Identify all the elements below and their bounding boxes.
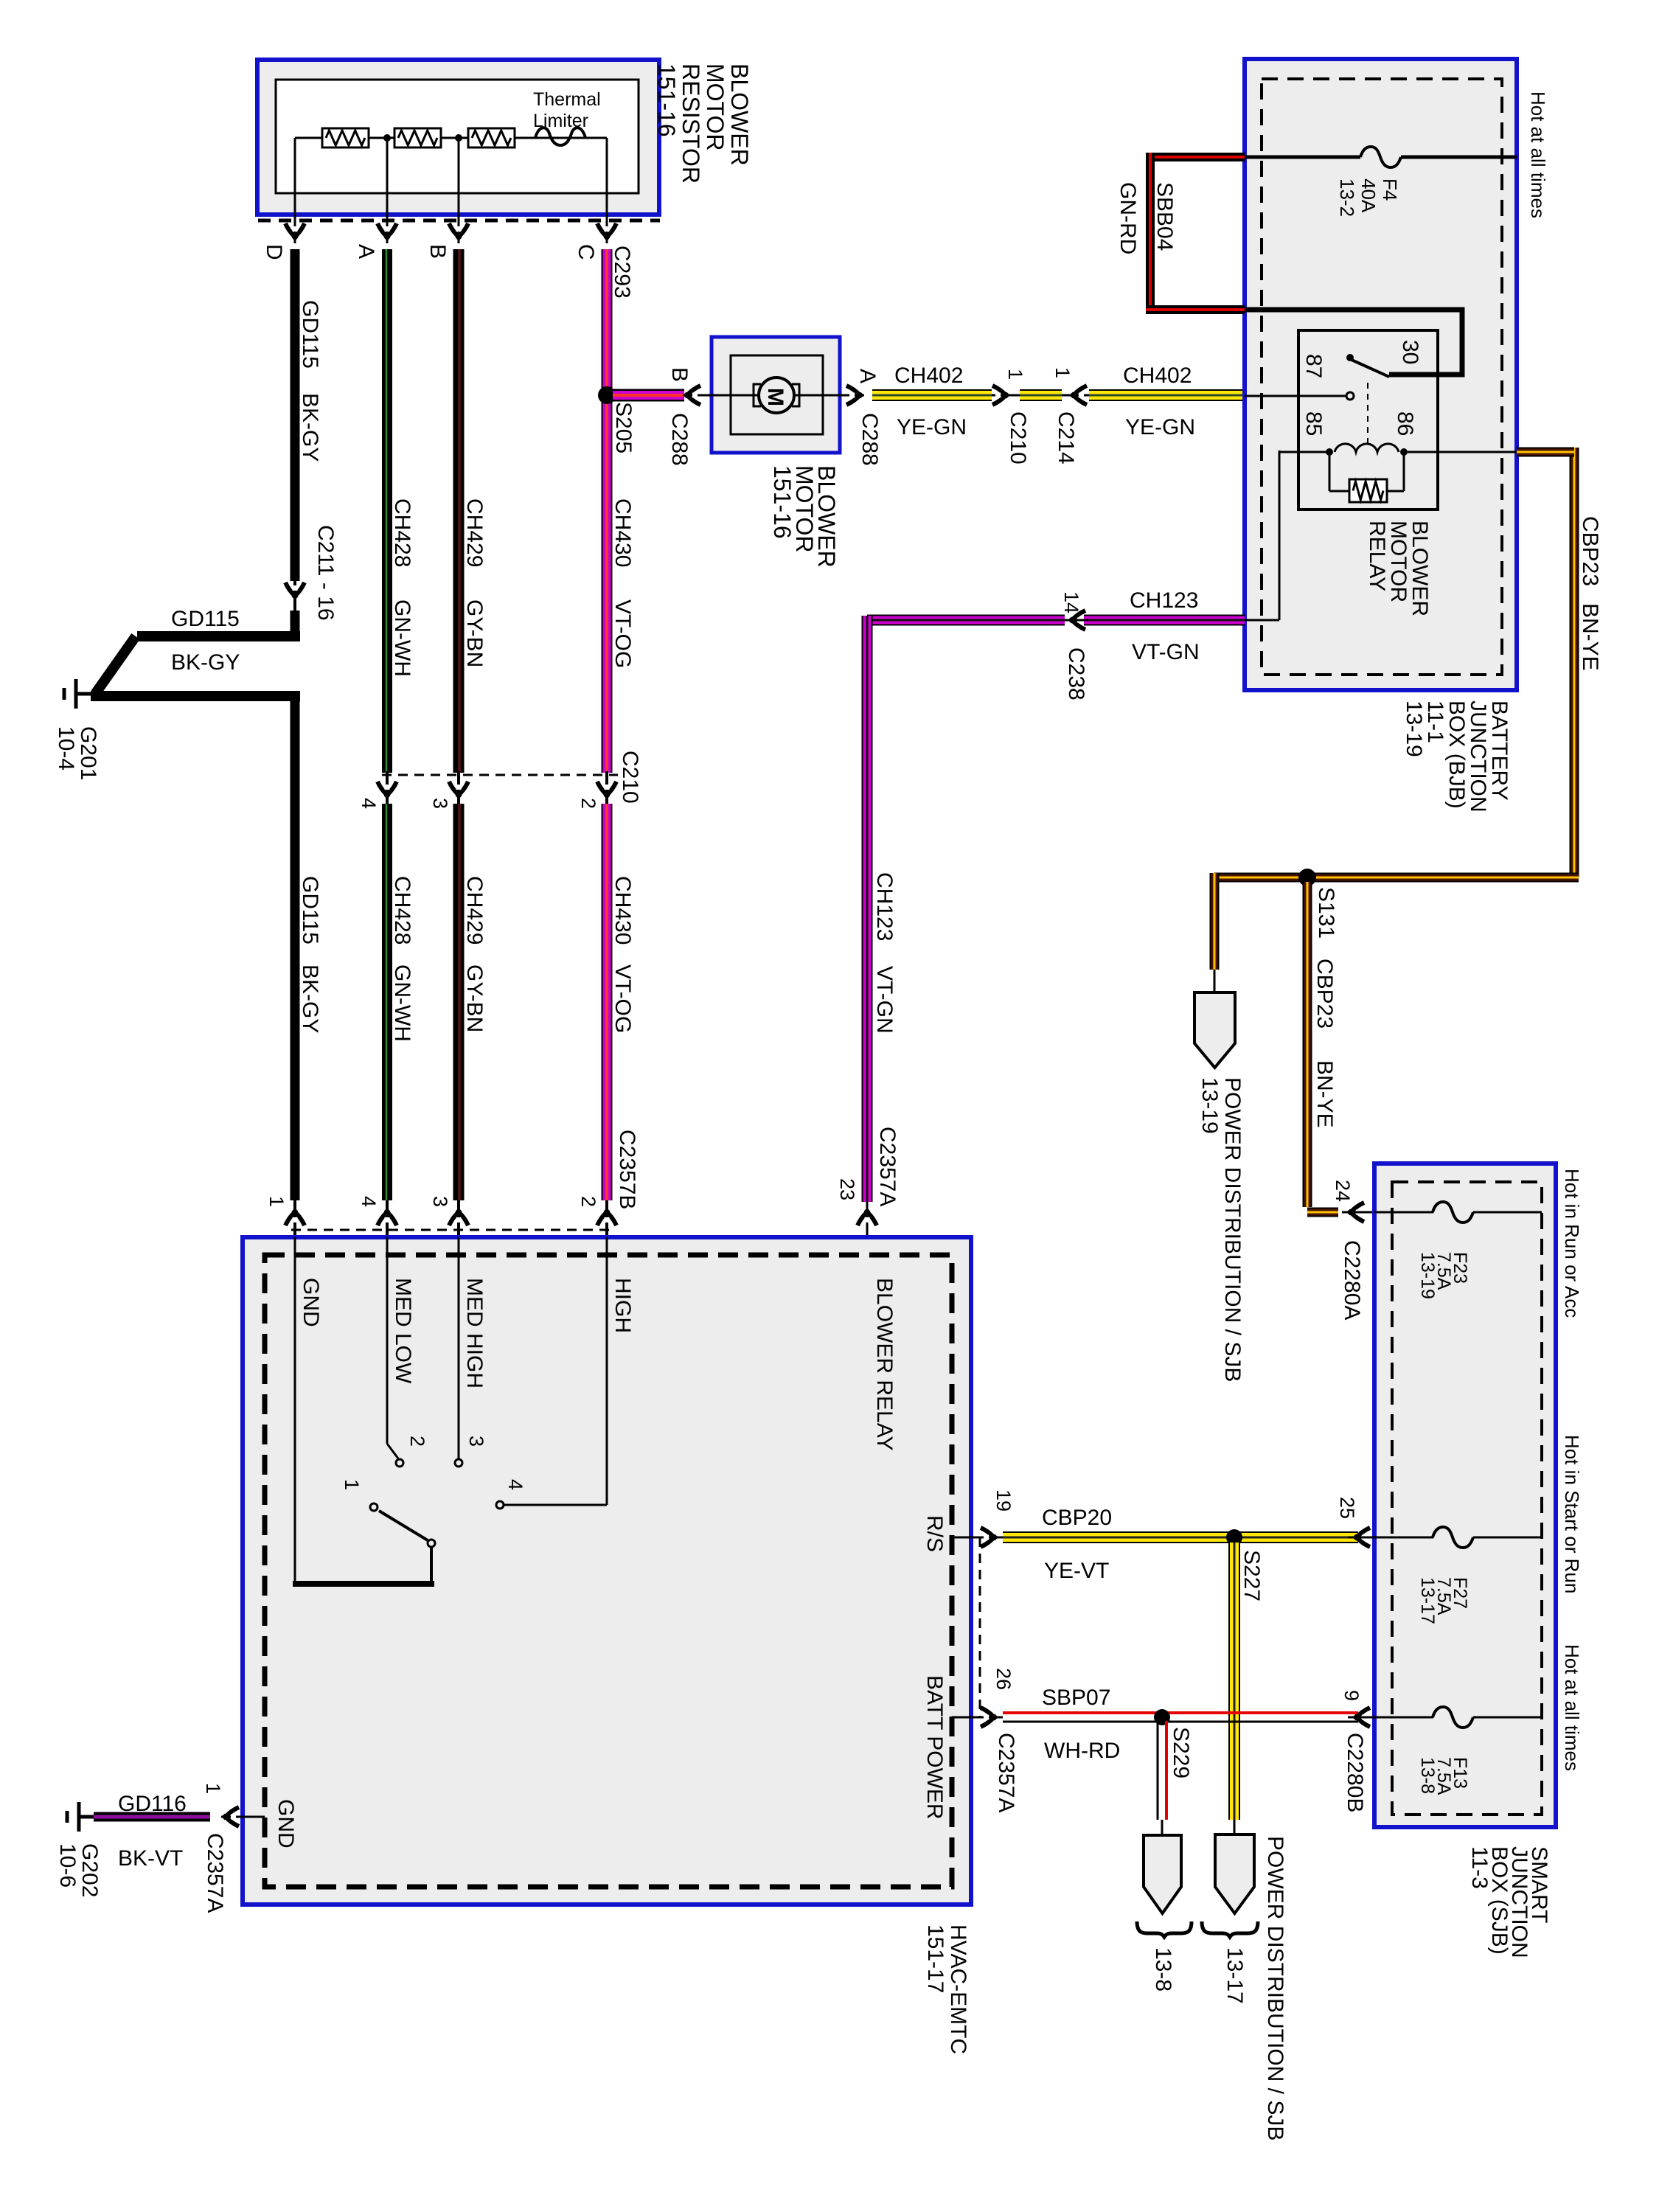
svg-text:CBP23: CBP23 [1578, 516, 1602, 586]
relay coil right terminal [1400, 448, 1408, 456]
wire CBP20 YE-VT [1003, 1531, 1358, 1543]
fuse F13 [1433, 1707, 1473, 1728]
svg-text:VT-OG: VT-OG [611, 964, 635, 1033]
ground G201 symbol [76, 692, 91, 696]
pin D arrow [285, 223, 305, 241]
svg-text:RESISTOR: RESISTOR [678, 63, 704, 184]
wire CBP23 corner to C2280A [1307, 1208, 1338, 1217]
wire GD115 ground bus lower horizontal [91, 691, 300, 701]
svg-text:RELAY: RELAY [1365, 521, 1389, 591]
svg-text:MED LOW: MED LOW [391, 1278, 415, 1384]
svg-text:BK-GY: BK-GY [298, 964, 322, 1033]
resistor R3 [468, 128, 515, 147]
svg-text:BLOWER RELAY: BLOWER RELAY [872, 1278, 897, 1451]
connector C2280B-25 arrow [1352, 1528, 1370, 1547]
wire pin26 stub [952, 1717, 1003, 1719]
HVAC inner dashed border [265, 1255, 952, 1887]
svg-text:13-19: 13-19 [1417, 1252, 1438, 1299]
svg-text:1: 1 [265, 1196, 288, 1207]
blower motor inner housing [731, 355, 823, 434]
svg-text:26: 26 [992, 1668, 1015, 1690]
svg-text:CBP23: CBP23 [1312, 959, 1337, 1029]
svg-text:10-6: 10-6 [55, 1843, 80, 1888]
switch common contact [428, 1540, 435, 1547]
splice S227 junction dot [1226, 1529, 1242, 1545]
brace 13-17 [1202, 1921, 1258, 1937]
wire GD115 BK-GY lower segment [291, 691, 300, 1200]
svg-text:1: 1 [1051, 367, 1074, 378]
wire CH429 GY-BN upper segment [453, 249, 465, 773]
relay box outline [1298, 330, 1438, 509]
wire CH123 VT-GN horizontal left [867, 615, 1065, 626]
svg-text:151-16: 151-16 [769, 465, 796, 539]
relay switch arm [1352, 360, 1389, 377]
motor brush left [754, 384, 761, 406]
fuse F23 line [1374, 1211, 1433, 1214]
motor pin B arrow [686, 394, 712, 397]
wire GD116 BK-VT [94, 1812, 210, 1822]
svg-text:GD116: GD116 [118, 1792, 187, 1816]
svg-text:CBP20: CBP20 [1042, 1506, 1112, 1530]
wire BJB internal to CH123 [1279, 451, 1281, 620]
svg-text:POWER DISTRIBUTION / SJB: POWER DISTRIBUTION / SJB [1220, 1077, 1245, 1382]
svg-text:GD115: GD115 [171, 607, 240, 631]
SJB inner dashed border [1392, 1182, 1542, 1815]
svg-text:13-8: 13-8 [1417, 1757, 1438, 1794]
svg-text:CH428: CH428 [390, 498, 414, 567]
svg-text:Hot at all times: Hot at all times [1527, 91, 1549, 218]
svg-text:14: 14 [1060, 591, 1082, 613]
fuse F4 feed line [1245, 156, 1360, 159]
svg-text:4: 4 [504, 1479, 526, 1490]
connector C238 arrow [1068, 611, 1085, 630]
wire GND to C2357A [221, 1816, 265, 1818]
svg-text:VT-GN: VT-GN [872, 966, 897, 1034]
svg-text:POWER DISTRIBUTION / SJB: POWER DISTRIBUTION / SJB [1263, 1836, 1287, 2140]
svg-text:GND: GND [299, 1278, 323, 1327]
svg-text:C2357A: C2357A [994, 1733, 1018, 1812]
svg-text:GN-RD: GN-RD [1116, 182, 1140, 254]
wire resistor pin D drop [294, 138, 296, 243]
svg-text:CH430: CH430 [611, 876, 635, 945]
fuse F23 [1433, 1202, 1473, 1222]
wire SBB04 GN-RD left [1146, 153, 1155, 314]
svg-text:CH428: CH428 [390, 876, 414, 945]
connector C293 dashed line [258, 219, 660, 223]
wire resistor pin C drop [606, 138, 608, 243]
connector C2280B arrow [1352, 1708, 1370, 1727]
splice S131 junction dot [1298, 869, 1316, 886]
resistor R1 [322, 128, 369, 147]
svg-text:A: A [855, 369, 880, 383]
svg-text:BK-VT: BK-VT [118, 1846, 183, 1871]
pin B arrow [449, 223, 468, 241]
svg-text:C2280B: C2280B [1343, 1733, 1367, 1812]
svg-text:S131: S131 [1314, 887, 1338, 939]
offpage connector POWER DISTRIBUTION (13-17) [1215, 1834, 1254, 1913]
svg-text:BLOWER: BLOWER [726, 63, 753, 166]
fuse F13 line [1374, 1717, 1433, 1719]
connector C2280A arrow [1346, 1203, 1364, 1222]
svg-text:GD115: GD115 [298, 876, 322, 945]
wire resistor pin A drop [386, 138, 389, 243]
connector C210 pin 3 arrow [457, 771, 460, 805]
wire to power distribution pentagon (S227) [1234, 1820, 1236, 1837]
resistor R2 [394, 128, 441, 147]
battery junction box outline [1245, 59, 1517, 690]
connector C2357A dashed line (pins 19-26) [979, 1537, 981, 1717]
svg-text:C2357B: C2357B [615, 1130, 639, 1209]
connector C214 arrow (CH402) [1069, 386, 1087, 405]
svg-text:SBP07: SBP07 [1042, 1686, 1110, 1710]
svg-text:3: 3 [429, 798, 451, 809]
node junction R1-R2 [383, 134, 391, 142]
thermal limiter element [535, 128, 585, 145]
svg-text:2: 2 [577, 1196, 599, 1207]
fuse F4 [1360, 147, 1401, 167]
wire SBB04 GN-RD top [1146, 153, 1245, 161]
svg-text:1: 1 [341, 1479, 363, 1490]
svg-text:C210: C210 [1006, 411, 1030, 465]
switch MED LOW contact [396, 1459, 403, 1467]
svg-text:GY-BN: GY-BN [462, 599, 487, 667]
svg-text:10-4: 10-4 [54, 726, 78, 771]
wire SBP07 WH-RD [1003, 1711, 1358, 1714]
svg-text:C288: C288 [667, 413, 692, 466]
svg-text:GN-WH: GN-WH [390, 599, 414, 677]
svg-text:CH123: CH123 [872, 872, 897, 941]
svg-text:C2357A: C2357A [203, 1833, 227, 1913]
svg-text:4: 4 [358, 798, 380, 809]
pin 19 arrow [981, 1528, 998, 1547]
svg-text:24: 24 [1332, 1180, 1354, 1202]
svg-text:BN-YE: BN-YE [1312, 1060, 1337, 1128]
svg-text:13-2: 13-2 [1336, 178, 1358, 217]
svg-text:13-17: 13-17 [1417, 1577, 1438, 1624]
motor pin A arrow [840, 394, 864, 397]
svg-text:CH123: CH123 [1130, 588, 1198, 613]
svg-text:R/S: R/S [922, 1515, 947, 1552]
switch MED HIGH line [458, 1237, 460, 1458]
smart junction box outline [1374, 1164, 1556, 1827]
svg-text:G201: G201 [76, 726, 100, 780]
svg-text:BATT POWER: BATT POWER [922, 1675, 947, 1820]
svg-text:2: 2 [577, 798, 599, 809]
svg-text:Hot in Start or Run: Hot in Start or Run [1561, 1435, 1583, 1593]
svg-text:151-17: 151-17 [923, 1924, 947, 1993]
wire to power distribution pentagon (S229) [1161, 1820, 1164, 1837]
connector C210 dashed line [382, 774, 618, 776]
svg-text:3: 3 [429, 1196, 451, 1207]
relay parallel resistor [1349, 479, 1387, 502]
wire CH123 VT-GN vertical [862, 616, 873, 1202]
svg-text:2: 2 [406, 1436, 428, 1447]
svg-text:S205: S205 [611, 402, 636, 453]
wire BJB to relay 30 [1245, 310, 1462, 375]
svg-text:1: 1 [1004, 369, 1026, 380]
svg-text:40A: 40A [1357, 178, 1380, 213]
svg-text:30: 30 [1398, 340, 1422, 364]
svg-text:C: C [574, 244, 598, 260]
svg-text:Limiter: Limiter [533, 111, 588, 131]
svg-text:13-19: 13-19 [1197, 1077, 1222, 1134]
wire SBB04 GN-RD bottom [1146, 305, 1245, 314]
svg-text:VT-OG: VT-OG [611, 599, 635, 668]
svg-text:Thermal: Thermal [533, 89, 601, 110]
blower motor box outline [712, 337, 840, 453]
svg-text:CH429: CH429 [462, 876, 487, 945]
svg-text:GND: GND [274, 1799, 298, 1848]
blower motor feed line [712, 394, 840, 397]
wire S205 to blower motor VT-OG [613, 389, 684, 402]
svg-text:G202: G202 [77, 1843, 102, 1897]
pin 4 arrow (C2357B) [386, 1200, 389, 1237]
wire pin19 stub [952, 1537, 1003, 1539]
svg-text:CH430: CH430 [611, 498, 635, 567]
switch HIGH contact [496, 1501, 504, 1509]
svg-text:13-8: 13-8 [1151, 1947, 1175, 1992]
relay coil windings [1335, 444, 1399, 452]
svg-text:F4: F4 [1379, 178, 1401, 201]
svg-text:S229: S229 [1169, 1727, 1193, 1778]
connector C210 pin 2 arrow [605, 771, 608, 805]
svg-text:YE-GN: YE-GN [897, 415, 967, 439]
svg-text:BK-GY: BK-GY [171, 650, 240, 675]
svg-text:C2357A: C2357A [875, 1127, 900, 1206]
svg-text:M: M [763, 388, 787, 406]
svg-text:B: B [667, 367, 692, 382]
HVAC-EMTC box outline [243, 1237, 971, 1905]
blower motor resistor box outline [257, 60, 659, 215]
svg-text:Hot at all times: Hot at all times [1561, 1644, 1583, 1771]
svg-text:C293: C293 [610, 246, 634, 299]
wire CH428 GN-WH upper segment [382, 249, 392, 773]
svg-text:C211 - 16: C211 - 16 [313, 525, 338, 621]
wire GD115 ground bus upper horizontal [137, 631, 300, 641]
wire CH402 YE-GN segment 3 [1089, 389, 1245, 401]
blower motor resistor inner housing [276, 80, 639, 193]
svg-text:151-16: 151-16 [653, 63, 680, 137]
svg-text:GY-BN: GY-BN [462, 964, 487, 1032]
switch MED HIGH contact [455, 1459, 462, 1467]
switch GND line [294, 1237, 296, 1582]
svg-text:25: 25 [1336, 1497, 1358, 1519]
switch MED LOW line [386, 1237, 389, 1444]
wire resistor pin B drop [458, 138, 460, 243]
svg-text:C2280A: C2280A [1340, 1240, 1364, 1320]
pin 26 arrow [981, 1708, 998, 1727]
svg-text:23: 23 [836, 1178, 858, 1200]
svg-text:9: 9 [1340, 1690, 1363, 1701]
relay coil left terminal [1326, 448, 1333, 456]
svg-text:CH402: CH402 [894, 364, 963, 388]
svg-text:Hot in Run or Acc: Hot in Run or Acc [1561, 1169, 1583, 1318]
svg-text:SBB04: SBB04 [1152, 182, 1177, 251]
svg-text:86: 86 [1393, 411, 1417, 436]
svg-text:YE-VT: YE-VT [1044, 1559, 1109, 1583]
offpage connector POWER DISTRIBUTION (13-8) [1144, 1835, 1181, 1913]
wire CH428 GN-WH lower segment [382, 804, 392, 1200]
svg-text:MED HIGH: MED HIGH [462, 1278, 487, 1388]
thin line through CH402 connectors [992, 394, 1089, 397]
wire CH402 YE-GN segment 1 [872, 389, 992, 401]
relay actuator dashed line [1367, 383, 1368, 446]
connector C2357B dashed line [291, 1229, 613, 1231]
relay common contact dot [1346, 354, 1354, 361]
wire S229 branch down [1157, 1721, 1159, 1820]
motor M1 circle [759, 378, 794, 413]
wire CBP23 BN-YE horizontal [1214, 873, 1579, 883]
svg-text:19: 19 [992, 1489, 1015, 1512]
pin C arrow [597, 223, 616, 241]
svg-text:C238: C238 [1064, 647, 1088, 700]
svg-text:C214: C214 [1054, 411, 1078, 465]
svg-text:CH402: CH402 [1123, 364, 1192, 388]
svg-text:85: 85 [1301, 411, 1326, 436]
svg-text:VT-GN: VT-GN [1132, 640, 1200, 664]
node junction R2-R3 [455, 134, 462, 142]
splice S229 junction dot [1154, 1709, 1170, 1725]
wire CH123 VT-GN horizontal right [1084, 615, 1245, 626]
pin 3 arrow (C2357B) [457, 1200, 460, 1237]
splice S205 junction dot [598, 386, 616, 404]
svg-text:BN-YE: BN-YE [1578, 603, 1602, 671]
wire GD115 ground bus diagonal [95, 636, 136, 694]
wire BN-YE S131 branch down-left [1210, 873, 1220, 970]
svg-text:C288: C288 [858, 413, 882, 466]
switch pin1 contact [370, 1503, 378, 1511]
svg-text:HIGH: HIGH [611, 1278, 635, 1333]
relay 87 contact circle [1346, 392, 1354, 400]
relay parallel resistor leads [1329, 452, 1331, 491]
motor brush right [792, 384, 799, 406]
switch HIGH line [606, 1237, 608, 1505]
wire GD115 BK-GY upper segment [291, 249, 300, 581]
wire CBP23 BN-YE down to SJB [1303, 882, 1312, 1207]
svg-text:A: A [354, 244, 378, 259]
svg-text:HVAC-EMTC: HVAC-EMTC [946, 1924, 970, 2054]
svg-text:1: 1 [202, 1783, 224, 1794]
brace 13-8 [1137, 1921, 1192, 1937]
pin 1 arrow (C2357B) [293, 1200, 296, 1237]
wire CBP23 BN-YE top segment [1517, 448, 1574, 457]
svg-text:BK-GY: BK-GY [298, 393, 322, 462]
svg-text:4: 4 [358, 1196, 380, 1207]
svg-text:CH429: CH429 [462, 498, 487, 567]
pin 2 arrow (C2357B) [605, 1200, 608, 1237]
svg-text:11-3: 11-3 [1467, 1846, 1492, 1889]
wire CH430 VT-OG upper segment [602, 249, 613, 773]
svg-text:87: 87 [1301, 354, 1326, 378]
wire S227 branch down [1228, 1543, 1240, 1820]
switch arm [379, 1511, 428, 1540]
wire CBP23 BN-YE from relay coil [1570, 448, 1579, 877]
wire CH430 VT-OG lower segment [602, 804, 613, 1200]
fuse F27 [1433, 1527, 1473, 1548]
fuse F27 line [1374, 1537, 1433, 1539]
wire CH402 into BJB [1245, 394, 1345, 397]
svg-text:13-17: 13-17 [1222, 1947, 1247, 2004]
svg-text:C210: C210 [618, 751, 642, 804]
wire resistor internal bus [295, 137, 607, 139]
svg-text:B: B [425, 244, 450, 259]
svg-text:D: D [262, 244, 286, 260]
wire relay 87 to box edge [1245, 395, 1346, 397]
pin A arrow [378, 223, 397, 241]
connector C211-16 arrow [293, 581, 296, 612]
svg-text:YE-GN: YE-GN [1125, 415, 1195, 439]
svg-text:S227: S227 [1239, 1550, 1264, 1601]
svg-text:WH-RD: WH-RD [1044, 1739, 1120, 1763]
relay coil feed line [1279, 451, 1326, 453]
pin 1 arrow (C2357A) [221, 1807, 239, 1826]
wire CH402 YE-GN segment 2 [1020, 389, 1062, 401]
wire CH429 GY-BN lower segment [453, 804, 465, 1200]
svg-text:13-19: 13-19 [1402, 700, 1426, 757]
offpage connector POWER DISTRIBUTION upper [1194, 992, 1235, 1068]
svg-text:3: 3 [465, 1436, 487, 1447]
BJB inner dashed border [1262, 79, 1502, 675]
svg-text:GD115: GD115 [298, 300, 322, 369]
pin 23 arrow [866, 1202, 869, 1258]
svg-text:GN-WH: GN-WH [390, 964, 414, 1042]
wire to power distribution pentagon (upper) [1214, 970, 1216, 995]
connector C210 arrow (CH402) [992, 386, 1010, 405]
svg-text:MOTOR: MOTOR [702, 63, 728, 151]
ground G202 symbol [79, 1815, 94, 1819]
connector C210 pin 4 arrow [386, 771, 389, 805]
